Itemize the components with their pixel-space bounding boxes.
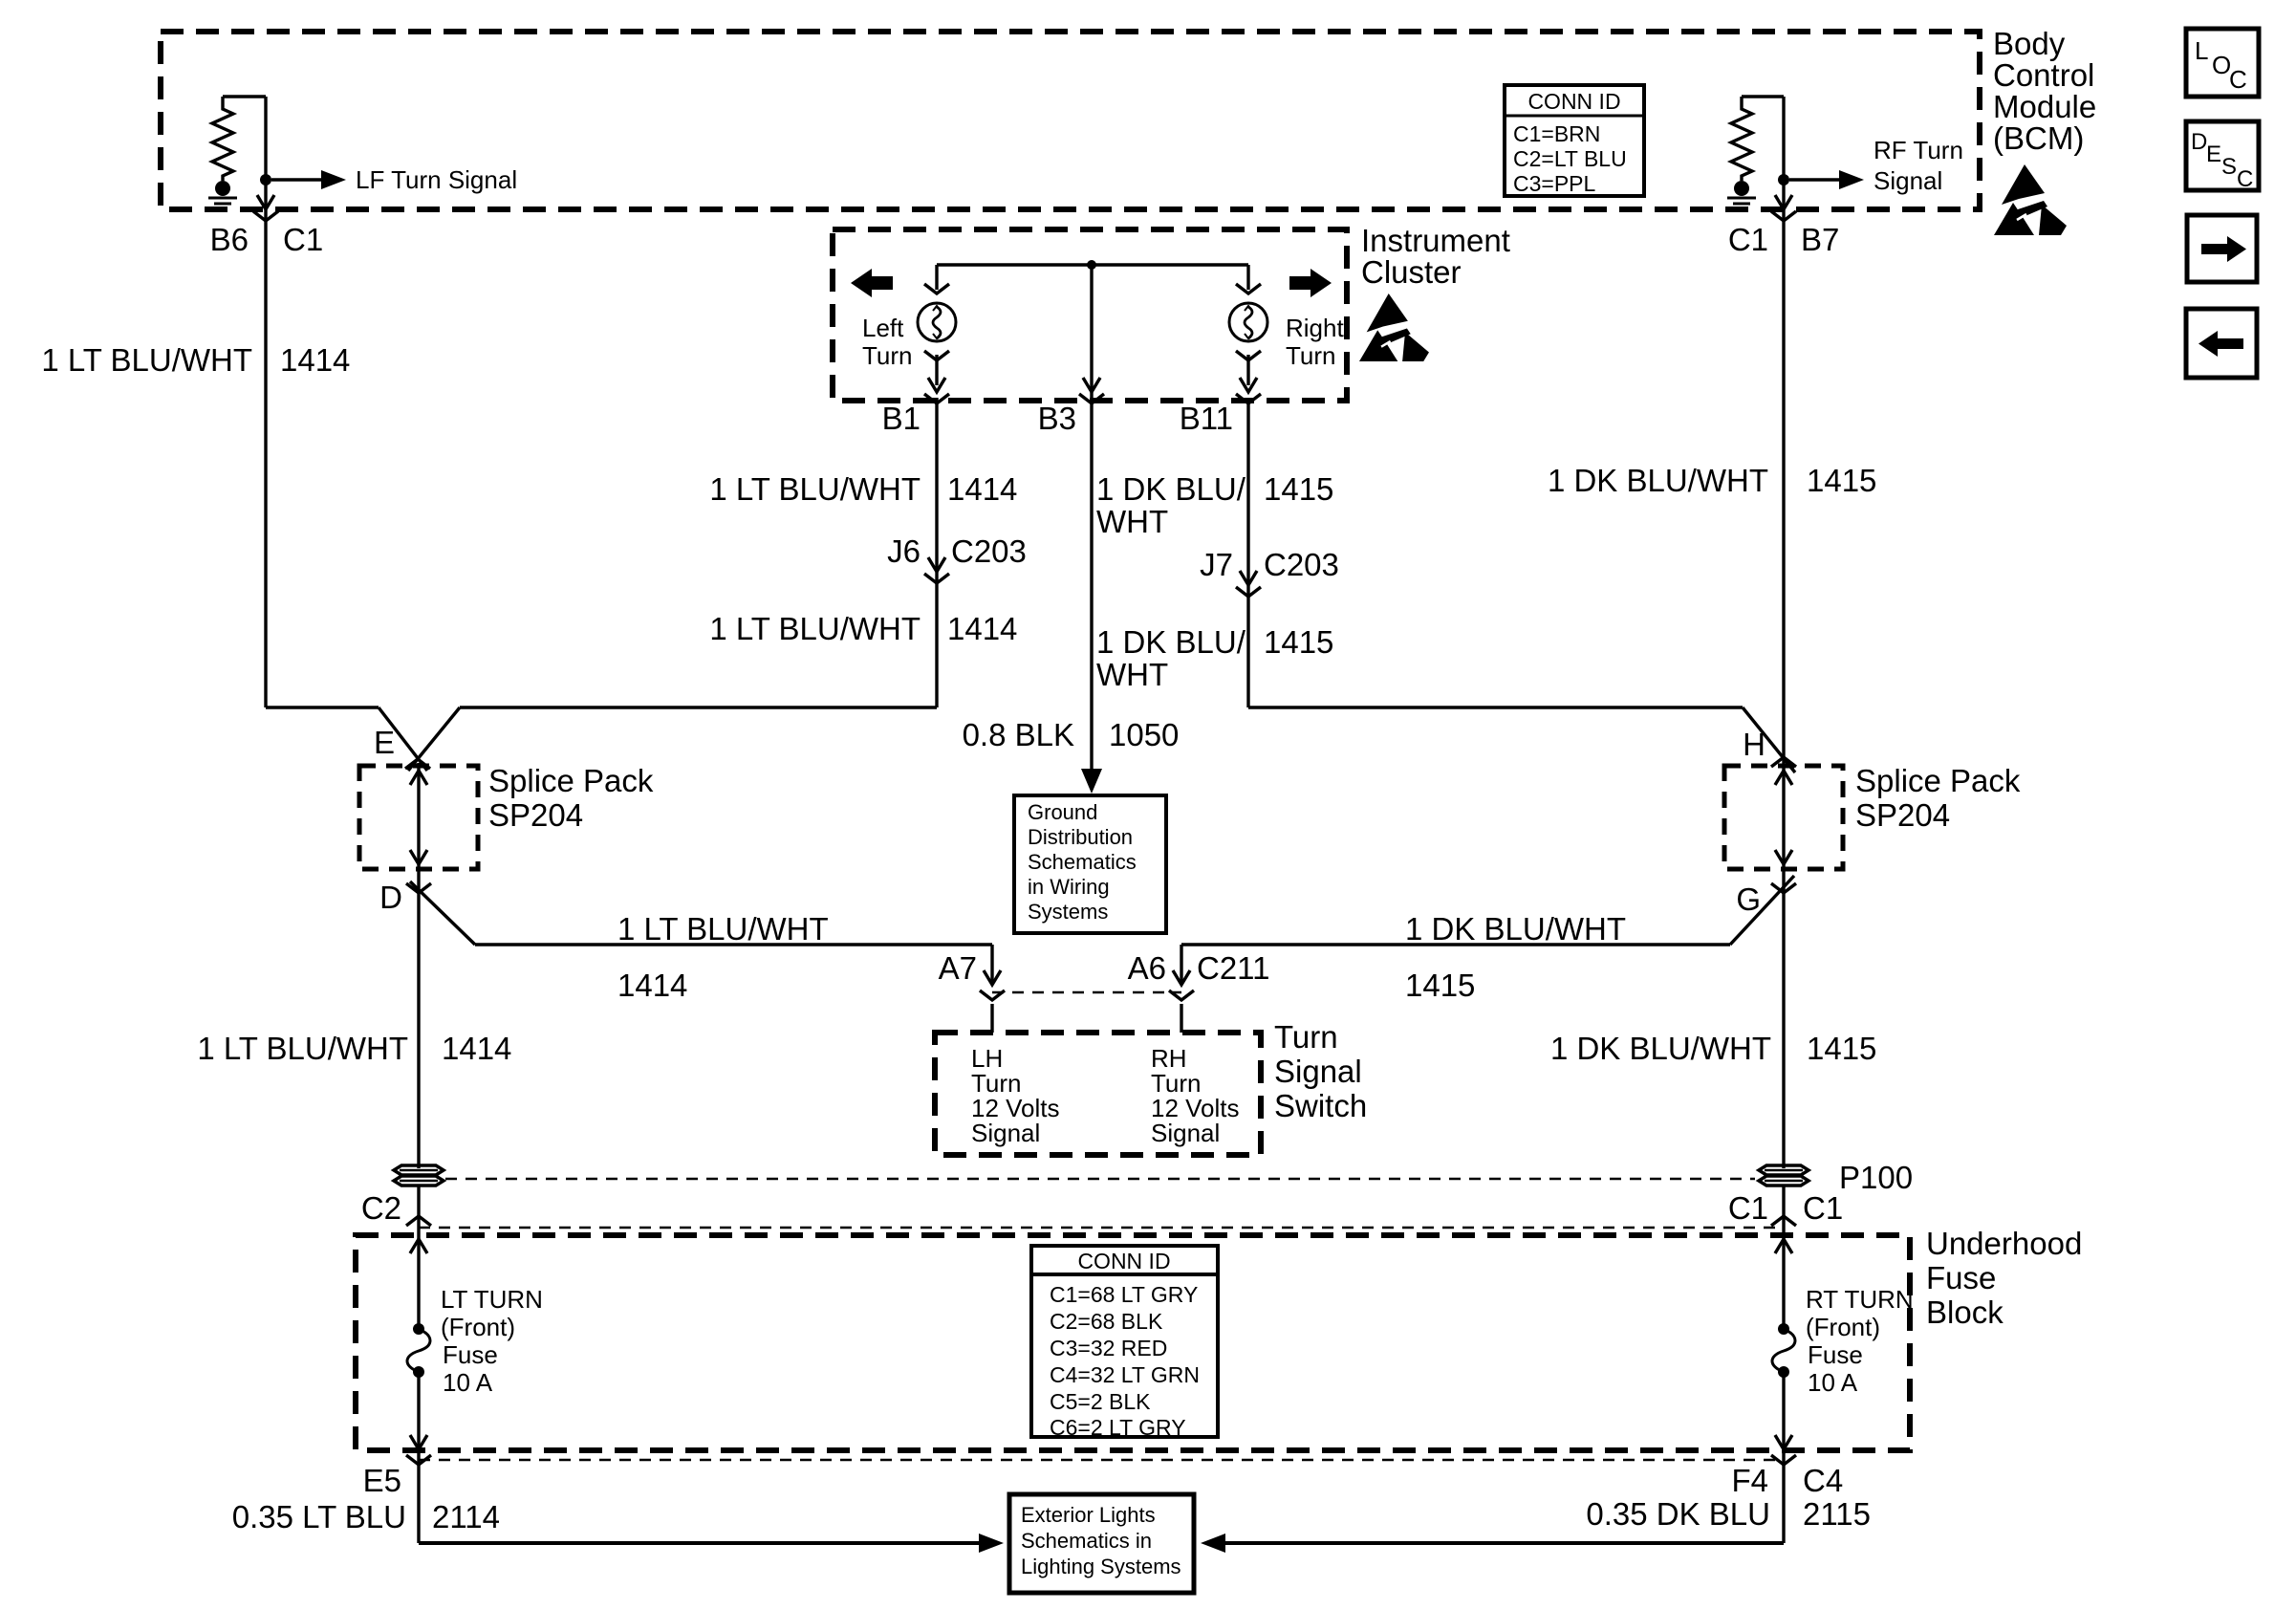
CONN ID table (BCM) [1505,85,1644,196]
dashed connector line below fuse block [419,1459,1784,1462]
svg-text:F4: F4 [1731,1463,1768,1498]
svg-text:1 DK BLU/: 1 DK BLU/ [1096,624,1246,660]
svg-text:CONN ID: CONN ID [1527,89,1620,114]
connector arrow A6 [1173,970,1190,985]
svg-text:Module: Module [1993,89,2096,124]
svg-text:Ground: Ground [1028,800,1097,824]
chevron below left turn lamp [924,351,949,360]
svg-text:Switch: Switch [1274,1088,1367,1123]
svg-text:1050: 1050 [1109,717,1179,752]
svg-text:Turn: Turn [862,341,913,370]
svg-text:1414: 1414 [947,611,1017,646]
svg-text:0.35 DK BLU: 0.35 DK BLU [1586,1496,1770,1532]
wire: drop to A7 [990,945,993,985]
svg-text:Cluster: Cluster [1361,254,1462,290]
svg-text:in Wiring: in Wiring [1028,875,1110,899]
wire: splice SP204 through G to P100 (right) [1782,766,1785,1168]
svg-text:B7: B7 [1801,222,1839,257]
svg-text:(Front): (Front) [1806,1313,1880,1341]
svg-text:SP204: SP204 [488,797,583,833]
DESC box [2186,121,2259,190]
svg-text:C5=2 BLK: C5=2 BLK [1050,1389,1151,1414]
svg-text:E5: E5 [363,1463,401,1498]
fuse block exit arrow (left) [410,1435,427,1449]
ground (BCM internal, right) [1727,181,1756,209]
wire: left lamp to B1 [935,355,938,385]
svg-text:B6: B6 [210,222,249,257]
wire: bus to left turn lamp [935,265,938,290]
svg-text:1414: 1414 [442,1031,511,1066]
svg-text:B1: B1 [882,401,921,436]
svg-text:Control: Control [1993,57,2094,93]
Ground Distribution Schematics reference box [1014,795,1166,933]
svg-text:Signal: Signal [1274,1054,1362,1089]
svg-text:C4: C4 [1803,1463,1843,1498]
connector chevron C1 right [1771,211,1796,221]
svg-text:J7: J7 [1200,547,1233,582]
svg-text:C2: C2 [361,1190,401,1226]
svg-text:2114: 2114 [432,1499,500,1534]
fuse block exit arrow (right) [1775,1435,1792,1449]
svg-text:D: D [2191,129,2207,155]
svg-text:1414: 1414 [947,471,1017,507]
svg-text:1 LT BLU/WHT: 1 LT BLU/WHT [709,611,921,646]
svg-text:C1: C1 [1728,222,1768,257]
wire: right resistor stub [1742,95,1784,98]
connector chevron C1 [253,211,278,221]
ESD sensitivity symbol (cluster) [1359,294,1429,361]
svg-text:1 DK BLU/WHT: 1 DK BLU/WHT [1548,463,1768,498]
dashed connector line C211 [992,991,1181,994]
wire: BCM B7 to node H (1 DK BLU/WHT 1415) [1782,97,1785,766]
wire: E5 to exterior lights reference [419,1541,981,1545]
block arrow: left turn indicator [851,269,893,297]
svg-text:1415: 1415 [1807,463,1876,498]
svg-text:C1: C1 [283,222,323,257]
connector chevron J7/C203 [1236,587,1261,597]
splice internal arrow down (right) [1775,850,1792,864]
svg-text:C1=68 LT GRY: C1=68 LT GRY [1050,1282,1198,1307]
svg-text:10 A: 10 A [1808,1368,1858,1397]
svg-text:L: L [2195,36,2208,65]
dashed connector line above fuse block [419,1227,1784,1229]
Underhood Fuse Block dashed box [356,1235,1910,1450]
connector arrow A7 [984,970,1001,985]
svg-text:S: S [2221,154,2237,180]
svg-text:B3: B3 [1038,401,1076,436]
connector arrow at cluster B1 [928,378,945,392]
CONN ID table (fuse block) [1031,1246,1218,1437]
svg-text:LF Turn Signal: LF Turn Signal [356,165,517,194]
connector arrow at cluster B11 [1240,378,1257,392]
svg-text:C2=LT BLU: C2=LT BLU [1513,146,1627,171]
wire: left bus run to E [266,706,379,708]
connector chevron E5 [406,1455,431,1465]
chevron above left turn lamp [924,284,949,294]
svg-text:Signal: Signal [1874,166,1942,195]
svg-text:Signal: Signal [1151,1119,1220,1147]
chevron below cluster border B3 [1079,394,1104,403]
indicator lamp: Right Turn [1229,303,1267,341]
resistor (LF turn signal load, BCM internal) [212,97,233,181]
block arrow: right turn indicator [1289,269,1332,297]
svg-text:P100: P100 [1839,1160,1913,1195]
wire: diagonal D to A7 run [410,881,475,945]
ground (BCM internal, left) [208,181,237,209]
svg-text:Schematics in: Schematics in [1021,1529,1152,1553]
connector arrow at cluster B3 [1083,378,1100,392]
svg-text:A7: A7 [939,950,977,986]
dashed pass-through line P100 [445,1178,1755,1181]
node E chevron [405,759,430,769]
Turn Signal Switch dashed box [935,1033,1261,1155]
splice internal arrow up (right) [1775,771,1792,785]
svg-text:SP204: SP204 [1855,797,1950,833]
wire: bus to right turn lamp [1246,265,1249,290]
wire: B1 down to node E bus [935,398,938,707]
svg-text:Fuse: Fuse [1808,1340,1863,1369]
svg-text:C1=BRN: C1=BRN [1513,121,1600,146]
splice internal arrow down (left) [410,850,427,864]
svg-text:D: D [379,880,402,915]
connector chevron C1 (fuse block) [1771,1216,1796,1226]
splice internal arrow up (left) [410,771,427,785]
svg-text:Splice Pack: Splice Pack [488,763,654,798]
svg-text:10 A: 10 A [443,1368,493,1397]
wire: LF turn signal arrow [271,178,323,181]
connector chevron C2 [406,1216,431,1226]
svg-text:2115: 2115 [1803,1496,1871,1532]
svg-text:G: G [1736,881,1761,917]
svg-text:C1: C1 [1803,1190,1843,1226]
chevron below cluster border B1 [924,394,949,403]
node D chevron [406,883,431,893]
right-arrow box [2187,215,2257,282]
wire: splice SP204 through D to P100 (left) [417,763,420,1168]
svg-text:J6: J6 [887,533,921,569]
svg-text:(Front): (Front) [441,1313,515,1341]
resistor (RF turn signal load, BCM internal) [1731,97,1752,181]
svg-text:1 LT BLU/WHT: 1 LT BLU/WHT [197,1031,408,1066]
chevron below cluster border B11 [1236,394,1261,403]
svg-text:Lighting Systems: Lighting Systems [1021,1555,1181,1578]
Instrument Cluster dashed box [833,229,1347,401]
wire: RT TURN fuse to F4 [1782,1372,1785,1543]
connector chevron A6 [1169,990,1194,1000]
fuse block entry arrow (right) [1775,1239,1792,1253]
svg-text:LT TURN: LT TURN [441,1285,543,1314]
wire: RF turn signal arrow [1789,178,1841,181]
wire: right lamp to B11 [1246,355,1249,385]
ESD sensitivity symbol (BCM) [1994,164,2067,235]
left-arrow box [2186,309,2257,378]
chevron above right turn lamp [1236,284,1261,294]
fuse LT TURN (Front) 10 A [407,1323,430,1378]
connector arrow at BCM B7 [1775,195,1792,209]
svg-text:WHT: WHT [1096,504,1168,539]
svg-text:Underhood: Underhood [1926,1226,2082,1261]
wire: P100 to LT TURN fuse [417,1186,420,1329]
svg-text:1 LT BLU/WHT: 1 LT BLU/WHT [41,342,252,378]
svg-text:Splice Pack: Splice Pack [1855,763,2021,798]
svg-text:WHT: WHT [1096,657,1168,692]
svg-text:Block: Block [1926,1295,2004,1330]
wire: A7 into switch [990,1004,993,1033]
wire: diagonal G to A6 run [1730,876,1794,945]
wire: B1 bus run to E [460,706,937,708]
svg-text:0.8 BLK: 0.8 BLK [963,717,1074,752]
svg-text:Exterior Lights: Exterior Lights [1021,1503,1156,1527]
chevron below right turn lamp [1236,351,1261,360]
svg-text:C203: C203 [1264,547,1339,582]
svg-text:E: E [2206,141,2221,167]
svg-text:1415: 1415 [1264,471,1333,507]
wire: P100 to RT TURN fuse [1782,1186,1785,1329]
svg-text:C3=32 RED: C3=32 RED [1050,1336,1167,1360]
Exterior Lights Schematics reference box [1009,1494,1194,1593]
svg-text:Schematics: Schematics [1028,850,1137,874]
wire: left resistor stub [223,95,266,98]
node: RF turn signal junction [1778,174,1789,185]
svg-text:Instrument: Instrument [1361,223,1510,258]
wire: A6 into switch [1180,1004,1182,1033]
svg-text:Turn: Turn [1274,1019,1338,1055]
svg-text:C6=2 LT GRY: C6=2 LT GRY [1050,1415,1186,1440]
wire: BCM B6 to node E (1 LT BLU/WHT 1414) [264,97,267,707]
svg-text:1414: 1414 [280,342,350,378]
svg-text:(BCM): (BCM) [1993,120,2084,156]
wire: B11 down to node H bus [1246,398,1249,707]
svg-text:0.35 LT BLU: 0.35 LT BLU [232,1499,406,1534]
svg-text:1415: 1415 [1264,624,1333,660]
svg-text:Left: Left [862,314,904,342]
svg-text:Systems: Systems [1028,900,1108,924]
svg-text:1 LT BLU/WHT: 1 LT BLU/WHT [617,911,829,946]
connector chevron A7 [980,990,1005,1000]
wire: D run to A7 (1 LT BLU/WHT 1414) [475,943,992,946]
svg-text:1 DK BLU/: 1 DK BLU/ [1096,471,1246,507]
fuse RT TURN (Front) 10 A [1772,1323,1795,1378]
fuse block entry arrow (left) [410,1239,427,1253]
wire: diagonal into H [1743,707,1795,772]
connector arrow J6/C203 [928,557,945,572]
svg-text:C1: C1 [1728,1190,1768,1226]
svg-text:Body: Body [1993,26,2066,61]
wire: F4 to exterior lights reference [1224,1541,1784,1545]
bulkhead grommet P100 (right) [1759,1165,1809,1186]
svg-text:1 DK BLU/WHT: 1 DK BLU/WHT [1405,911,1626,946]
svg-text:RF Turn: RF Turn [1874,136,1963,164]
bulkhead grommet P100 (left) [394,1165,444,1186]
wire: B11 bus run to H [1248,706,1743,708]
svg-text:B11: B11 [1180,401,1233,436]
Splice Pack SP204 dashed box (left) [359,766,478,869]
wire: LT TURN fuse to E5 [417,1372,420,1543]
svg-text:C4=32 LT GRN: C4=32 LT GRN [1050,1362,1200,1387]
svg-text:C211: C211 [1197,950,1269,986]
svg-text:1 DK BLU/WHT: 1 DK BLU/WHT [1550,1031,1771,1066]
wire: G run to A6 (1 DK BLU/WHT 1415) [1181,943,1730,946]
node: LF turn signal junction [260,174,271,185]
connector chevron J6/C203 [924,574,949,583]
svg-text:C: C [2237,166,2253,192]
svg-text:1414: 1414 [617,968,687,1003]
svg-text:Right: Right [1286,314,1344,342]
svg-text:Turn: Turn [1286,341,1336,370]
svg-text:Fuse: Fuse [443,1340,498,1369]
Body Control Module (BCM) dashed box [161,32,1980,209]
wire: diagonal into E [379,707,427,771]
svg-text:RT TURN: RT TURN [1806,1285,1914,1314]
svg-text:C: C [2229,65,2247,94]
connector arrow at BCM B6 [257,195,274,209]
junction: cluster bus to B3 [1087,260,1096,270]
wire: cluster internal top bus [937,263,1248,266]
svg-text:H: H [1743,727,1765,762]
svg-text:C3=PPL: C3=PPL [1513,171,1596,196]
svg-text:1415: 1415 [1807,1031,1876,1066]
svg-text:1 LT BLU/WHT: 1 LT BLU/WHT [709,471,921,507]
svg-text:C203: C203 [951,533,1027,569]
node G chevron [1771,883,1796,893]
svg-text:1415: 1415 [1405,968,1475,1003]
svg-text:A6: A6 [1128,950,1166,986]
wire: diagonal into E (from B1 side) [408,707,460,771]
connector chevron F4 [1771,1455,1796,1465]
wire: cluster B3 ground lead (0.8 BLK 1050) [1090,265,1093,772]
svg-text:Signal: Signal [971,1119,1040,1147]
Splice Pack SP204 dashed box (right) [1724,766,1843,869]
wire: drop to A6 [1180,945,1182,985]
svg-text:E: E [374,725,395,760]
svg-text:CONN ID: CONN ID [1077,1249,1170,1273]
LOC box [2186,29,2259,97]
svg-text:Fuse: Fuse [1926,1260,1996,1295]
svg-text:Distribution: Distribution [1028,825,1133,849]
connector arrow J7/C203 [1240,571,1257,585]
indicator lamp: Left Turn [918,303,956,341]
node H chevron [1771,757,1796,767]
svg-text:C2=68 BLK: C2=68 BLK [1050,1309,1163,1334]
